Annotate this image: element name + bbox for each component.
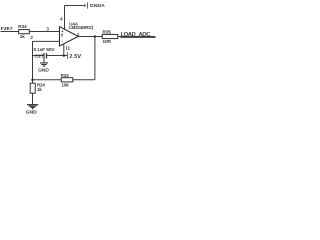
svg-text:R35: R35 [102, 29, 111, 34]
wire feedback bottom right segment [73, 79, 95, 81]
resistor R33 body [61, 78, 73, 82]
svg-text:R33: R33 [61, 73, 69, 78]
svg-text:LOAD_ADC: LOAD_ADC [121, 32, 151, 38]
svg-text:LM324DRG): LM324DRG) [69, 25, 94, 30]
svg-text:2: 2 [30, 35, 33, 40]
svg-text:1k: 1k [20, 34, 26, 39]
svg-text:GND: GND [38, 68, 49, 74]
svg-text:GND: GND [26, 110, 37, 116]
wire output from op-amp apex [78, 36, 102, 38]
wire pin 4 top horizontal [65, 5, 84, 7]
junction node at output [94, 35, 97, 38]
resistor R34 body [19, 30, 30, 34]
svg-text:3: 3 [46, 26, 49, 31]
op-amp U4A triangle [60, 27, 79, 46]
svg-text:C27: C27 [35, 53, 44, 59]
svg-text:11: 11 [65, 45, 70, 50]
svg-text:R34: R34 [18, 24, 27, 29]
svg-text:10K: 10K [61, 83, 69, 88]
svg-text:0.1uF 50V: 0.1uF 50V [34, 47, 55, 52]
underline of LOAD_ADC net label [121, 36, 156, 38]
junction node 2.5V rail / pin 11 [63, 54, 66, 57]
wire pin 4 vertical [64, 6, 66, 30]
svg-text:4: 4 [60, 16, 63, 21]
wire pin 2 horizontal [33, 40, 60, 42]
ground symbol under C27 [40, 63, 48, 66]
wire R35 right to end [118, 36, 156, 38]
wire pin 11 vertical [63, 44, 65, 56]
wire 2.5V rail pin2-vert to cap [33, 55, 44, 57]
capacitor C27 plates [44, 53, 47, 59]
resistor R24 body [30, 83, 35, 93]
wire R24 bottom lead to ground [32, 93, 34, 104]
svg-text:2.5V: 2.5V [69, 54, 81, 60]
wire pin 2 vertical down [32, 41, 34, 79]
power flag 2.5V bar [66, 52, 68, 59]
ground symbol at bottom of R24 [27, 105, 38, 109]
resistor R35 body [102, 34, 118, 38]
power flag GNDA arrow and bar [84, 2, 88, 8]
wire 2.5V rail cap to flag [47, 55, 68, 57]
wire R24 top lead [32, 80, 34, 84]
power pin stub mark inside triangle [61, 34, 63, 37]
junction node pin2/R33/R24 [31, 78, 34, 81]
svg-text:GNDA: GNDA [90, 3, 105, 8]
wire R34 to op-amp pin 3 [30, 31, 60, 33]
wire feedback bottom left segment [33, 79, 62, 81]
wire input FZK7 underline to R34 [1, 31, 19, 33]
svg-text:1k: 1k [37, 87, 42, 92]
wire feedback vertical [94, 37, 96, 80]
svg-text:FZK7: FZK7 [1, 26, 13, 32]
svg-text:10R: 10R [102, 39, 111, 44]
wire gnd stub below cap left plate [43, 59, 45, 63]
svg-text:+: + [61, 30, 64, 35]
